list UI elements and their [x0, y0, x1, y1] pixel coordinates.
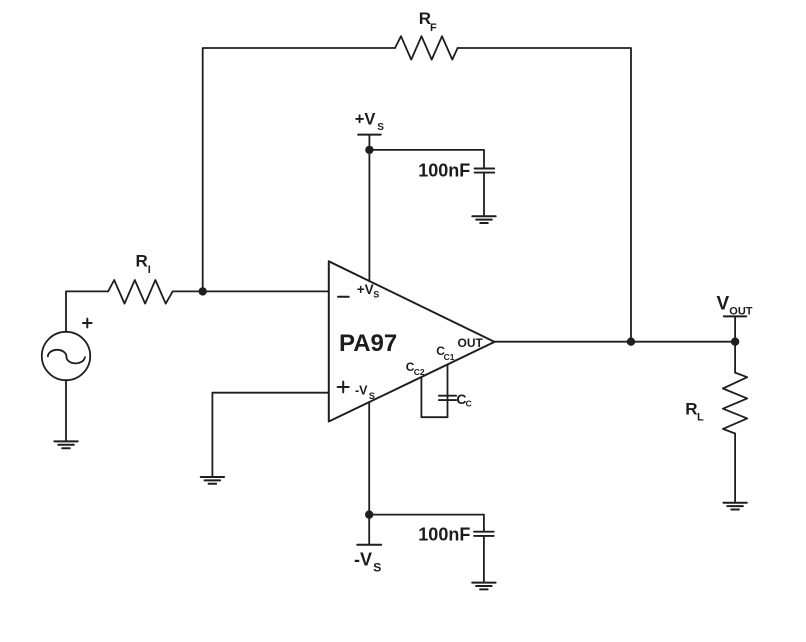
supply -VS bar	[357, 544, 381, 546]
svg-text:-V: -V	[354, 549, 372, 569]
ground below C2	[472, 583, 495, 590]
node feedback-output junction	[628, 338, 635, 345]
svg-text:PA97: PA97	[339, 330, 397, 357]
node input junction	[199, 288, 206, 295]
wire feedback top right and down to output node	[458, 48, 631, 342]
node +VS junction	[366, 147, 373, 154]
wire C1 to ground	[483, 173, 485, 217]
wire compensation pin CC2 down and bottom connect	[421, 377, 447, 417]
wire non-inverting input to ground	[212, 393, 328, 477]
wire from -VS node to capacitor C2	[369, 515, 484, 532]
svg-text:C: C	[466, 399, 472, 409]
ground at non-inverting input	[201, 477, 224, 484]
capacitor C1 100nF plates	[475, 169, 495, 173]
wire VOUT terminal stem	[734, 316, 736, 341]
plus polarity mark of V1	[83, 319, 92, 328]
wire output node down to RL	[734, 342, 736, 373]
svg-text:S: S	[369, 391, 375, 401]
svg-text:OUT: OUT	[729, 305, 753, 317]
wire from RI to op-amp inverting input	[173, 290, 329, 292]
svg-text:I: I	[148, 264, 151, 276]
svg-text:C1: C1	[444, 352, 455, 362]
sine wave inside V1	[48, 350, 85, 364]
capacitor CC plates	[439, 396, 456, 400]
node VOUT junction	[732, 338, 739, 345]
ground below RL	[723, 503, 746, 510]
wire op-amp -VS pin down to node	[368, 402, 370, 545]
wire output from op-amp to VOUT	[495, 341, 736, 343]
wire RL to ground	[734, 434, 736, 503]
resistor RI	[108, 280, 173, 304]
wire from +VS node to capacitor C1	[369, 150, 484, 169]
wire feedback left vertical from input node up	[203, 48, 395, 291]
voltage source V1	[42, 332, 90, 380]
svg-text:S: S	[373, 561, 381, 575]
svg-text:L: L	[697, 411, 704, 423]
terminal VOUT bar	[724, 315, 747, 317]
svg-text:S: S	[373, 290, 379, 300]
op-amp non-inverting input plus mark	[338, 382, 349, 393]
resistor RL	[723, 373, 747, 434]
svg-text:F: F	[430, 22, 437, 34]
svg-text:+V: +V	[357, 282, 374, 297]
svg-text:-V: -V	[355, 384, 368, 398]
capacitor C2 100nF plates	[474, 532, 494, 536]
wire +VS to op-amp top	[368, 135, 370, 282]
svg-text:V: V	[717, 293, 730, 314]
svg-text:R: R	[136, 251, 148, 270]
svg-text:OUT: OUT	[458, 336, 484, 350]
wire compensation pin CC1 down	[447, 365, 449, 418]
wire from V1 bottom to ground	[65, 380, 67, 441]
svg-text:100nF: 100nF	[418, 524, 470, 544]
wire C2 to ground	[483, 536, 485, 583]
wire from V1 top to RI	[66, 291, 108, 331]
svg-text:S: S	[377, 122, 384, 133]
ground below C1	[472, 216, 495, 223]
supply +VS bar	[358, 134, 381, 136]
op-amp inverting input minus mark	[338, 296, 349, 298]
op-amp U1 triangle	[329, 261, 495, 421]
svg-text:100nF: 100nF	[418, 160, 470, 180]
node -VS junction	[366, 511, 373, 518]
svg-text:+V: +V	[355, 110, 376, 128]
resistor RF	[395, 36, 458, 59]
svg-text:R: R	[685, 400, 697, 419]
ground below V1	[54, 441, 77, 448]
svg-text:C2: C2	[414, 367, 425, 377]
